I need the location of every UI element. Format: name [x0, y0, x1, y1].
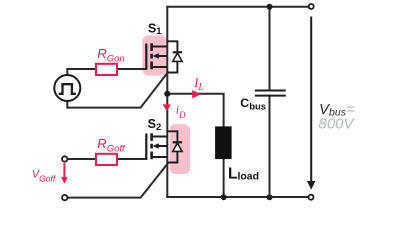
wire main vertical S1 drain to S2 source — [166, 7, 168, 197]
node junction bottom rail load — [221, 194, 227, 200]
S2 body diode — [167, 131, 182, 162]
VGoff arrow — [61, 163, 68, 184]
S1 gate bar — [145, 44, 147, 70]
resistor RGoff — [96, 154, 117, 165]
svg-text:800V: 800V — [319, 116, 356, 133]
node junction top rail Cbus — [267, 4, 273, 10]
S1 channel segments — [150, 43, 153, 69]
terminal bottom rail minus — [309, 195, 314, 200]
S2 channel segments — [150, 133, 153, 159]
S1 body diode — [167, 41, 182, 72]
transistor S2 — [146, 133, 167, 159]
Vbus measurement arrow — [307, 17, 315, 190]
wire pulse gen top to RGon — [67, 69, 96, 75]
S2 gate bar — [145, 134, 147, 160]
inductor Lload — [215, 126, 232, 159]
terminal VGoff bottom — [62, 195, 67, 200]
node junction bottom rail Cbus — [267, 194, 273, 200]
wire RGon to S1 gate — [117, 68, 146, 70]
highlight S1 mosfet — [142, 36, 167, 76]
node switch node — [164, 91, 170, 97]
wire Cbus branch top — [269, 7, 271, 91]
pulse generator V1 — [54, 75, 80, 101]
resistor RGon — [96, 64, 117, 75]
IL current arrow — [192, 90, 201, 98]
S1 drain stub — [152, 46, 168, 48]
S2 drain stub — [152, 136, 168, 138]
terminal VGoff top — [62, 156, 67, 161]
S2 source stub — [152, 156, 168, 158]
iD current arrow — [163, 104, 171, 111]
wire load bottom — [223, 159, 225, 197]
S1 source stub — [152, 66, 168, 68]
wire RGoff to S2 gate — [117, 158, 146, 160]
wire Cbus branch bottom — [269, 96, 271, 197]
wire bottom rail — [167, 196, 308, 198]
terminal top rail plus — [309, 4, 314, 9]
wire VGoff top terminal to RGoff — [68, 158, 96, 160]
wire VGoff bottom terminal return — [68, 164, 168, 198]
wire pulse gen bottom return — [67, 73, 167, 108]
transistor S1 — [146, 43, 167, 69]
highlight S2 body diode — [170, 124, 191, 174]
S1 body arrow — [158, 55, 168, 57]
wire top rail — [167, 6, 308, 8]
wire switch node to load — [167, 94, 223, 127]
capacitor Cbus — [255, 91, 286, 96]
S2 body arrow — [158, 145, 168, 147]
